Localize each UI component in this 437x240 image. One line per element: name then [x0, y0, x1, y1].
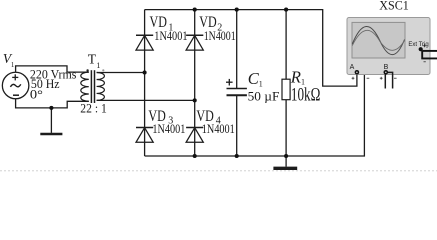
- svg-text:22 : 1: 22 : 1: [80, 100, 107, 115]
- svg-text:0°: 0°: [30, 86, 43, 101]
- svg-text:XSC1: XSC1: [379, 0, 409, 13]
- svg-text:Ext Trig: Ext Trig: [408, 42, 428, 48]
- svg-text:1N4001: 1N4001: [152, 121, 185, 136]
- svg-text:B: B: [384, 64, 389, 71]
- svg-text:1N4001: 1N4001: [204, 28, 236, 43]
- svg-text:1N4001: 1N4001: [154, 28, 187, 43]
- svg-text:A: A: [350, 64, 355, 71]
- svg-text:1: 1: [11, 61, 15, 69]
- svg-text:50 µF: 50 µF: [248, 89, 280, 103]
- svg-text:1: 1: [259, 79, 263, 88]
- svg-text:1: 1: [96, 61, 100, 70]
- svg-text:10kΩ: 10kΩ: [291, 85, 321, 106]
- svg-text:1N4001: 1N4001: [202, 121, 235, 136]
